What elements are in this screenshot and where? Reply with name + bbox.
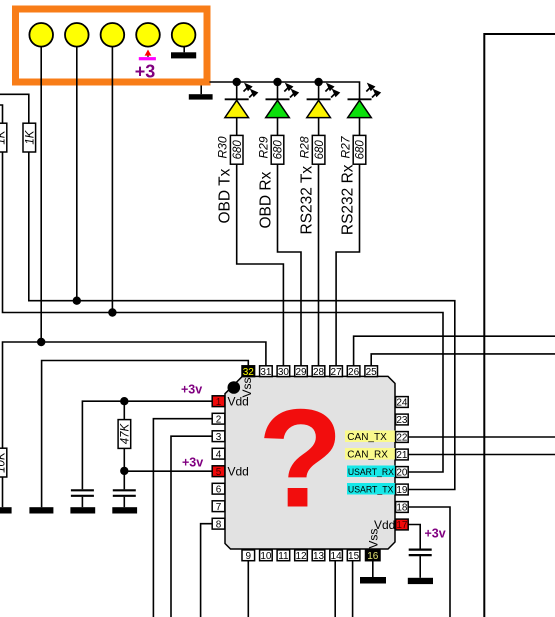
ground bar C (under C1) <box>70 507 95 513</box>
wire pin 17 Vdd to C3 <box>408 525 420 549</box>
svg-text:1: 1 <box>216 397 222 408</box>
capacitor C1 <box>71 490 94 507</box>
U1 label CAN_TX (pin 22) <box>345 431 395 444</box>
wire net USART_TX (R2 bottom to pin 19) <box>29 152 455 490</box>
resistor R3 10K (left edge) <box>0 448 7 507</box>
svg-text:47K: 47K <box>119 422 131 444</box>
pin 6 <box>212 483 225 495</box>
svg-text:4: 4 <box>216 449 222 460</box>
svg-text:RS232 Tx: RS232 Tx <box>299 166 316 235</box>
svg-text:12: 12 <box>295 551 307 562</box>
svg-text:21: 21 <box>396 450 408 461</box>
pin 18 <box>396 502 409 514</box>
node junction D2 on USART_TX net <box>73 297 81 305</box>
svg-text:Vdd: Vdd <box>228 395 249 409</box>
wire pin 16 Vss to ground <box>372 561 374 577</box>
ground bar D (under C2) <box>112 507 137 513</box>
svg-text:1K: 1K <box>24 129 36 144</box>
svg-text:OBD Tx: OBD Tx <box>217 168 234 223</box>
resistor R1 1K (left edge) <box>0 123 7 152</box>
ground bar under C3 <box>408 578 433 584</box>
svg-text:R30: R30 <box>216 136 230 158</box>
node junction 47K top <box>120 397 128 405</box>
ground bar A (under 10K) <box>0 507 12 513</box>
svg-text:CAN_TX: CAN_TX <box>347 432 387 443</box>
svg-text:9: 9 <box>246 551 252 562</box>
svg-text:R29: R29 <box>256 136 270 158</box>
resistor R27 680 <box>338 135 366 164</box>
wire LED supply rail (top) <box>210 82 360 99</box>
svg-text:6: 6 <box>216 484 222 495</box>
pin 10 <box>260 550 273 562</box>
svg-text:14: 14 <box>331 551 343 562</box>
node junction D1 on pin31 net <box>37 338 45 346</box>
pin 12 <box>295 550 308 562</box>
wire R30 to pin30 <box>237 164 284 366</box>
svg-text:13: 13 <box>313 551 325 562</box>
wire D3 anode down <box>111 47 113 313</box>
svg-text:29: 29 <box>295 367 307 378</box>
pin 19 <box>396 484 409 496</box>
svg-text:32: 32 <box>243 367 255 378</box>
svg-text:23: 23 <box>396 415 408 426</box>
wire R29 to pin29 <box>278 164 302 366</box>
capacitor C2 <box>113 471 136 507</box>
wire pin 25 right <box>371 354 555 366</box>
U1 label USART_TX (pin 19) <box>347 483 395 496</box>
LED lamp D4 (yellow circle) <box>136 23 160 47</box>
svg-text:OBD Rx: OBD Rx <box>258 171 275 228</box>
wire +3v rail from pin 1 <box>82 401 212 489</box>
LED D6 yellow (OBD Tx) <box>225 82 257 135</box>
pin 28 <box>312 366 325 378</box>
LED lamp D3 (yellow circle) <box>101 23 125 47</box>
svg-text:R27: R27 <box>338 135 352 158</box>
wire pin 5 Vdd <box>124 470 212 472</box>
LED D7 green (OBD Rx) <box>266 82 298 135</box>
pin 7 <box>212 501 225 513</box>
svg-text:1K: 1K <box>0 129 7 144</box>
svg-text:+3v: +3v <box>181 382 202 396</box>
svg-text:26: 26 <box>348 367 360 378</box>
wire R27 to pin27 <box>336 164 359 366</box>
pin 16 <box>366 550 381 562</box>
svg-text:+3v: +3v <box>425 527 446 541</box>
wire net USART_RX (R1 bottom to pin 20) <box>3 152 444 472</box>
svg-text:CAN_RX: CAN_RX <box>347 450 388 461</box>
pin 22 <box>396 432 409 444</box>
ground under connector box <box>189 86 213 100</box>
wire pin 26 right <box>354 336 555 366</box>
svg-text:10: 10 <box>260 551 272 562</box>
pin 24 <box>396 397 409 409</box>
svg-text:?: ? <box>258 380 344 537</box>
pin 32 <box>242 366 255 378</box>
svg-text:680: 680 <box>314 140 326 160</box>
svg-text:3: 3 <box>216 432 222 443</box>
pin 23 <box>396 414 409 426</box>
svg-text:Vdd: Vdd <box>228 465 249 479</box>
wire pin 18 down <box>408 507 450 617</box>
svg-text:22: 22 <box>396 433 408 444</box>
svg-text:16: 16 <box>367 551 379 562</box>
wire to R1 top from left edge <box>0 105 3 123</box>
ground under D5 (inside box) <box>171 47 196 59</box>
node junction LED1 rail <box>233 78 241 86</box>
node junction D3 on USART_RX net <box>108 308 116 316</box>
svg-text:27: 27 <box>331 367 343 378</box>
svg-text:R28: R28 <box>298 136 312 158</box>
svg-text:680: 680 <box>232 140 244 160</box>
wire pin 3 down <box>171 436 212 617</box>
LED lamp D2 (yellow circle) <box>65 23 89 47</box>
svg-text:15: 15 <box>348 551 360 562</box>
wire pin 14 down <box>334 561 336 617</box>
node junction LED2 rail <box>273 78 281 86</box>
pin 17 <box>396 519 409 531</box>
wire D2 anode down <box>76 47 78 301</box>
svg-text:+3v: +3v <box>182 455 203 469</box>
U1 label USART_RX (pin 20) <box>347 466 395 479</box>
svg-text:20: 20 <box>396 468 408 479</box>
svg-text:11: 11 <box>278 551 289 562</box>
wire pin 22 CAN_TX right <box>408 436 555 438</box>
pin 4 <box>212 448 225 460</box>
pin 3 <box>212 431 225 443</box>
pin 20 <box>396 467 409 479</box>
capacitor C3 <box>409 550 432 578</box>
wire pin 9 down <box>247 561 249 617</box>
pin 2 <box>212 413 225 425</box>
svg-text:RS232 Rx: RS232 Rx <box>340 164 357 235</box>
pin 27 <box>330 366 343 378</box>
pin 26 <box>347 366 360 378</box>
LED D9 green (RS232 Rx) <box>348 84 380 135</box>
ground bar under pin 16 <box>360 577 386 584</box>
wire pin 15 down <box>352 561 354 617</box>
power +3 symbol under D4 <box>135 50 156 82</box>
LED D8 yellow (RS232 Tx) <box>307 82 339 135</box>
svg-text:25: 25 <box>366 367 378 378</box>
pin 13 <box>312 550 325 562</box>
svg-text:680: 680 <box>273 140 285 160</box>
wire R28 to pin28 <box>318 164 320 366</box>
connector J1 (orange LED block outline) <box>16 9 208 82</box>
pin 29 <box>295 366 308 378</box>
svg-text:17: 17 <box>396 520 408 531</box>
svg-text:USART_RX: USART_RX <box>348 467 395 478</box>
pin 14 <box>330 550 343 562</box>
pin 25 <box>365 366 378 378</box>
svg-text:8: 8 <box>216 519 222 530</box>
svg-text:30: 30 <box>278 367 290 378</box>
wire Vss pin32 to ground <box>42 361 249 508</box>
resistor R29 680 <box>256 135 284 164</box>
wire pin 21 CAN_RX right <box>408 454 555 456</box>
svg-text:680: 680 <box>355 140 367 160</box>
svg-text:10K: 10K <box>0 451 7 473</box>
pin 11 <box>277 550 290 562</box>
resistor R28 680 <box>298 135 326 164</box>
resistor R2 1K <box>23 123 36 152</box>
svg-text:7: 7 <box>216 502 222 513</box>
svg-text:USART_TX: USART_TX <box>348 485 394 496</box>
U1 index dot <box>228 381 241 394</box>
svg-text:19: 19 <box>396 485 408 496</box>
pin 21 <box>396 449 409 461</box>
svg-text:24: 24 <box>396 398 408 409</box>
wire D1 anode down <box>40 47 42 342</box>
svg-text:18: 18 <box>396 503 408 514</box>
resistor R4 47K <box>118 401 131 471</box>
pin 9 <box>242 550 255 562</box>
pin 30 <box>277 366 290 378</box>
wire to R2 top from left edge <box>0 94 29 123</box>
pin 31 <box>260 366 273 378</box>
wire pin 8 down <box>201 524 213 617</box>
node junction 47K bottom / C2 <box>120 467 128 475</box>
svg-text:31: 31 <box>260 367 272 378</box>
svg-text:5: 5 <box>216 467 222 478</box>
U1 label CAN_RX (pin 21) <box>345 448 395 461</box>
pin 1 <box>212 396 225 408</box>
pin 8 <box>212 518 225 530</box>
wire pin 2 down <box>153 419 212 617</box>
ground bar B (Vss wire) <box>29 507 53 513</box>
node junction LED3 rail <box>314 78 322 86</box>
svg-text:Vss: Vss <box>367 529 381 549</box>
pin 5 <box>212 466 225 478</box>
svg-text:2: 2 <box>216 414 222 425</box>
wire net pin31 (10K top to pin 31) <box>3 342 266 448</box>
LED lamp D1 (yellow circle) <box>29 23 53 47</box>
svg-text:28: 28 <box>313 367 325 378</box>
IC U1 body (QFP-32) <box>225 376 395 549</box>
svg-text:+3: +3 <box>135 61 156 81</box>
LED lamp D5 (yellow circle) <box>172 23 196 47</box>
resistor R30 680 <box>216 135 244 164</box>
pin 15 <box>347 550 360 562</box>
frame: right-side block outline <box>484 34 555 617</box>
